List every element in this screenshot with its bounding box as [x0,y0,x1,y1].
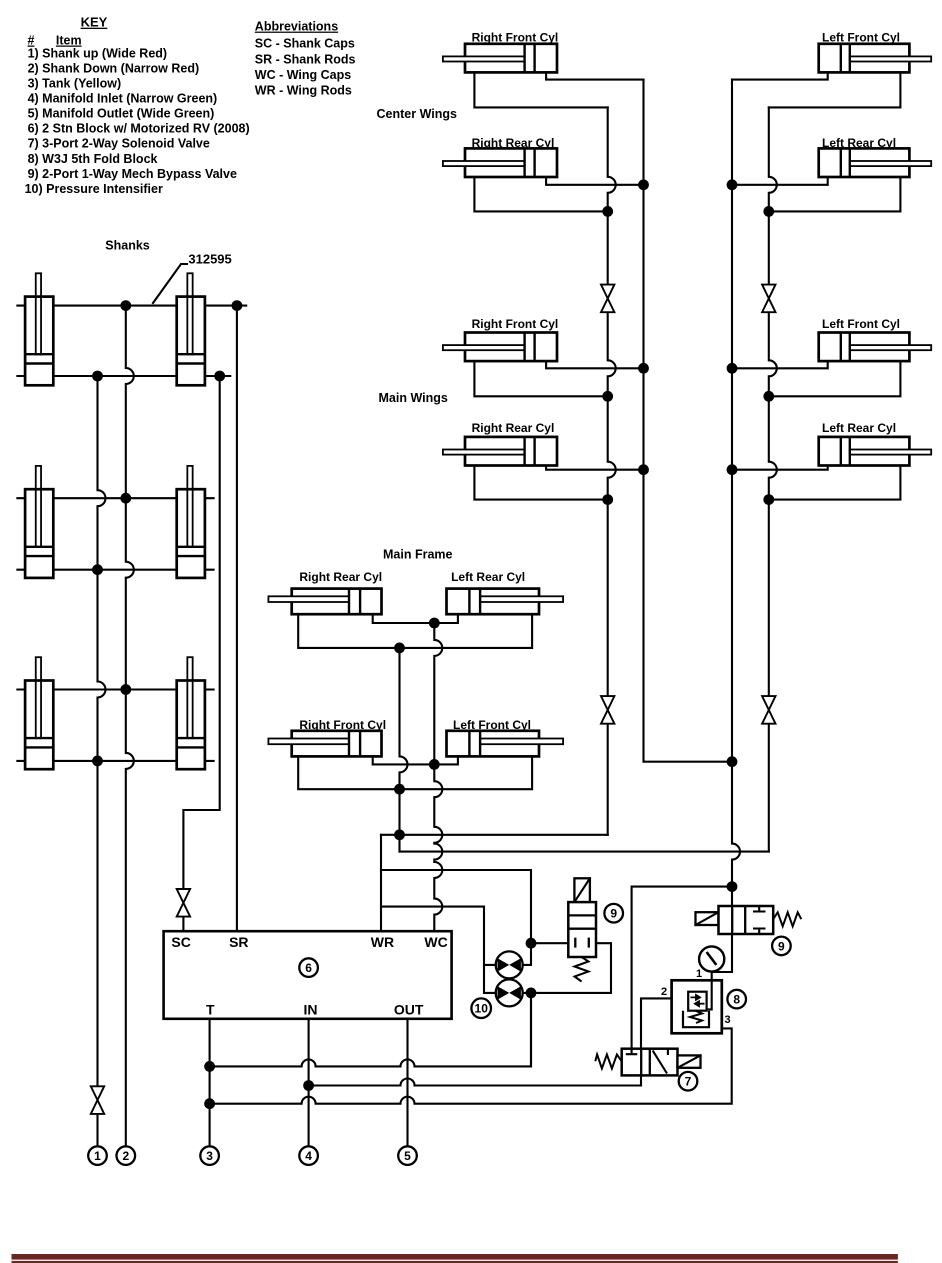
wire manifold T port down to hose 3 [209,1019,211,1147]
svg-text:6) 2 Stn Block w/ Motorized RV: 6) 2 Stn Block w/ Motorized RV (2008) [28,122,250,136]
wire right wing rod bus with hops [608,107,616,834]
wire center RR rod port to right rod bus [474,177,607,211]
svg-text:7) 3-Port 2-Way Solenoid Valve: 7) 3-Port 2-Way Solenoid Valve [28,137,210,151]
cylinder center wings left front [819,44,932,73]
svg-text:Left Front Cyl: Left Front Cyl [822,31,900,45]
wire WR rod bus with hop [400,648,408,852]
svg-text:IN: IN [304,1002,318,1018]
junction intensifier upper [526,938,537,949]
wire WR port riser [380,835,382,931]
wire main LR cap port to left cap bus [732,466,828,470]
wire main frame rear rod ports [298,614,532,648]
svg-text:2: 2 [122,1149,129,1163]
bypass valve 9 right body [719,906,774,934]
valve 9 right blocked port bars [753,906,766,934]
wire center RR cap port to right cap bus [546,177,643,185]
pressure intensifier item 10 lower element [496,979,523,1006]
junction row2 cap bus [92,564,103,575]
valve 9 left blocked port bars [575,938,589,948]
hose connection 1 circled [88,1146,107,1165]
svg-text:10: 10 [475,1002,489,1016]
junction frame front caps [429,759,440,770]
item 8 circled number [727,990,746,1009]
solenoid valve 7 coil [678,1055,701,1067]
svg-text:312595: 312595 [188,252,231,267]
svg-text:Left Front Cyl: Left Front Cyl [822,317,900,331]
junction cap buses merge [727,756,738,767]
wire WR to right rod bus [381,834,608,836]
svg-text:4: 4 [305,1149,312,1163]
wire WC cap bus with hops to WC port [434,623,442,931]
cylinder main frame left rear [447,589,564,615]
cylinder main wings left rear [819,437,932,466]
junction main RF rod [602,391,613,402]
svg-text:Right Rear Cyl: Right Rear Cyl [472,421,555,435]
svg-text:OUT: OUT [394,1002,424,1018]
cylinder main wings right front [443,333,557,362]
svg-text:1: 1 [94,1149,101,1163]
svg-text:Abbreviations: Abbreviations [255,20,338,34]
svg-text:Left Rear Cyl: Left Rear Cyl [822,421,896,435]
junction main RR cap [638,464,649,475]
shank cylinder row1 left [25,273,53,385]
item 10 circled number [471,998,491,1018]
shutoff valve on SC line [177,889,190,917]
wire WC branch to intensifier bracket [381,907,484,965]
cylinder center wings right rear [443,148,557,177]
cylinder center wings left rear [819,148,932,177]
leader line for 312595 [153,264,187,303]
junction intensifier lower [526,988,537,999]
svg-text:9: 9 [610,907,617,921]
wire WR to left rod bus [400,851,769,853]
valve 7 blocked port bar [626,1049,638,1055]
wire intensifier right upper stub [523,943,531,965]
fold valve on left rod bus upper [762,285,775,313]
pressure intensifier item 10 upper element [496,951,523,978]
valve 9 right spring [773,912,801,926]
shank cylinder row1 right [177,273,205,385]
bypass valve 9 right solenoid [696,912,719,925]
wire manifold IN port down to hose 4 [308,1019,310,1147]
junction row1 rod bus [120,300,131,311]
svg-text:2: 2 [661,986,667,998]
svg-text:10) Pressure Intensifier: 10) Pressure Intensifier [25,182,163,196]
svg-text:9: 9 [778,939,785,953]
hose connection 2 circled [117,1146,136,1165]
wire shank-rod bus to hose 2 with crossover hops [126,306,134,1147]
item 7 circled number [679,1072,698,1091]
svg-text:Main Wings: Main Wings [379,391,448,405]
fold block internal relief valve [707,980,712,1009]
hose connection 3 circled [200,1146,219,1165]
wire main RR cap port to right cap bus [546,466,643,470]
wire left wing rod bus with hops [769,107,777,851]
svg-text:9) 2-Port 1-Way Mech Bypass Va: 9) 2-Port 1-Way Mech Bypass Valve [28,167,237,181]
cylinder main wings right rear [443,437,557,466]
wire main frame front cap ports [373,756,458,764]
wire shank rods to manifold SR port [236,306,238,932]
fold valve on left rod bus lower [762,696,775,724]
wire shank row1 cap-side [17,375,230,377]
svg-text:8: 8 [733,993,740,1007]
fold valve on right rod bus lower [601,696,614,724]
junction bypass branch [727,881,738,892]
junction row2 rod bus [120,493,131,504]
svg-text:8) W3J 5th Fold Block: 8) W3J 5th Fold Block [28,152,158,166]
wire center LR rod port to left rod bus [769,177,901,211]
wire fold block port 2 to valve 7 [641,998,672,1048]
junction center right cap bus [638,179,649,190]
wire main frame front rod ports [298,756,532,789]
svg-text:Center Wings: Center Wings [377,107,457,121]
wire T to fold block port 3 with hops [210,1028,732,1103]
svg-text:WR - Wing Rods: WR - Wing Rods [255,83,352,97]
junction IN [303,1080,314,1091]
junction WR bus [394,829,405,840]
svg-text:T: T [206,1002,215,1018]
svg-text:Main Frame: Main Frame [383,548,453,562]
valve 7 flow path diagonal [653,1049,668,1074]
footer rule thick [12,1254,898,1260]
wire main LF cap port to left cap bus [732,361,828,368]
svg-text:5: 5 [404,1149,411,1163]
bypass valve 9 left body [568,902,596,957]
svg-text:SC: SC [171,934,190,950]
solenoid valve 7 spring [595,1055,621,1069]
wire shank-cap bus to hose 1 with crossover hops [98,376,106,1146]
svg-text:1: 1 [696,968,702,980]
wire IN to solenoid valve 7 with hop [309,1075,641,1085]
junction frame front rods [394,784,405,795]
svg-text:7: 7 [685,1075,692,1089]
wire center LF cap port to left cap bus [732,72,828,79]
wire main LF rod port to left rod bus [769,361,901,396]
svg-text:3: 3 [206,1149,213,1163]
hose connection 5 circled [398,1146,417,1165]
svg-text:2) Shank Down (Narrow Red): 2) Shank Down (Narrow Red) [28,61,200,75]
cylinder main frame right rear [268,589,381,615]
wire right wing cap bus [644,80,733,762]
wire left wing cap bus with hop [712,80,740,972]
junction row1 cap SC [214,371,225,382]
svg-text:Right Front Cyl: Right Front Cyl [472,317,559,331]
junction center right rod bus [602,206,613,217]
junction main RR rod [602,494,613,505]
svg-text:WC: WC [424,934,447,950]
svg-text:Shanks: Shanks [105,239,150,253]
junction frame rear rods [394,643,405,654]
cylinder center wings right front [443,44,557,73]
wire gauge stem to fold block [711,972,713,981]
fold block internal spring chamber [683,1011,709,1027]
svg-text:Left Rear Cyl: Left Rear Cyl [451,570,525,584]
svg-text:6: 6 [305,961,312,975]
wire center LF rod port to left rod bus [769,72,901,107]
fold valve on right rod bus upper [601,285,614,313]
fold block 8 outer body [672,980,722,1033]
wire intensifier right lower stub to tank wire [523,993,531,1067]
junction T upper [204,1061,215,1072]
cylinder main wings left front [819,333,932,362]
wire T to intensifier lower port with hops [210,993,531,1067]
svg-text:SR - Shank Rods: SR - Shank Rods [255,53,356,67]
wire bypass valve 9 left outlet loop [531,943,611,993]
wire manifold OUT port down to hose 5 [406,1019,408,1147]
svg-text:5) Manifold Outlet (Wide Green: 5) Manifold Outlet (Wide Green) [28,107,215,121]
junction row1 cap bus [92,371,103,382]
manifold block body [164,931,452,1019]
wire center LR cap port to left cap bus [732,177,828,185]
svg-text:Right Rear Cyl: Right Rear Cyl [299,570,382,584]
pressure gauge on fold block [699,946,724,971]
wire shank row3 rod-side [17,688,213,690]
svg-text:SC - Shank Caps: SC - Shank Caps [255,37,355,51]
item 9 right circled number [772,937,791,956]
wire shank row1 rod-side [17,305,246,307]
junction row3 rod bus [120,684,131,695]
junction center left cap bus [727,179,738,190]
shutoff valve on hose 1 line [91,1086,104,1114]
shank cylinder row3 left [25,657,53,769]
valve 9 left spring [575,957,589,982]
svg-text:WC - Wing Caps: WC - Wing Caps [255,68,351,82]
wire WR branch to intensifier inlet [381,870,531,943]
footer rule thin [12,1261,898,1263]
svg-text:KEY: KEY [81,15,108,30]
junction center left rod bus [763,206,774,217]
wire shank caps to manifold SC port [183,376,219,931]
cylinder main frame left front [447,731,564,757]
wire main frame rear cap ports [373,614,458,623]
shank cylinder row2 right [177,466,205,578]
svg-text:WR: WR [371,934,394,950]
svg-text:Right Front Cyl: Right Front Cyl [472,31,559,45]
wire main RR rod port to right rod bus [474,466,607,500]
junction main LF cap [727,363,738,374]
junction row1 rod SR [232,300,243,311]
svg-text:4) Manifold Inlet (Narrow Gree: 4) Manifold Inlet (Narrow Green) [28,92,218,106]
wire shank row2 cap-side [17,569,213,571]
svg-text:3) Tank (Yellow): 3) Tank (Yellow) [28,76,122,90]
wire shank row2 rod-side [17,497,213,499]
junction main LR cap [727,464,738,475]
svg-text:1) Shank up (Wide Red): 1) Shank up (Wide Red) [28,46,167,60]
junction T lower [204,1098,215,1109]
bypass valve 9 left solenoid [574,878,590,902]
hose connection 4 circled [299,1146,318,1165]
item 6 circled number on manifold [299,958,318,977]
shank cylinder row2 left [25,466,53,578]
junction main LR rod [763,494,774,505]
wire from cap buses through bypass valve 9 right to gauge [632,887,732,1049]
wire center RF cap port to right cap bus [546,72,643,79]
junction main RF cap [638,363,649,374]
wire shank row3 cap-side [17,760,213,762]
svg-text:SR: SR [229,934,248,950]
wire center RF rod port to right rod bus [474,72,607,107]
svg-text:3: 3 [725,1014,731,1026]
cylinder main frame right front [268,731,381,757]
junction frame rear caps [429,618,440,629]
wire main RF rod port to right rod bus [474,361,607,396]
solenoid valve 7 body [622,1049,678,1076]
wire intensifier left bracket [484,965,496,993]
junction row3 cap bus [92,756,103,767]
junction main LF rod [763,391,774,402]
wire bypass valve 9 left inlet [531,942,568,944]
wire main LR rod port to left rod bus [769,466,901,500]
wire main RF cap port to right cap bus [546,361,643,368]
item 9 left circled number [604,904,623,923]
shank cylinder row3 right [177,657,205,769]
